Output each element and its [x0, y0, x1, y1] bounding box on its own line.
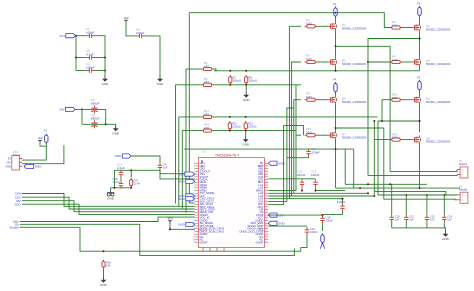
wire r1 to q1: [318, 25, 329, 27]
svg-text:22: 22: [193, 219, 195, 221]
net label SDO: [14, 202, 21, 206]
fuse F2: [333, 2, 337, 18]
wire bus b1e: [181, 131, 183, 210]
wire sense A bottom: [214, 84, 296, 86]
component D1 (capsule): [320, 233, 324, 249]
capacitor C11 1uF: [404, 214, 414, 222]
svg-text:GND: GND: [112, 132, 120, 136]
wire r10 to q6: [403, 99, 413, 101]
wire q3 source: [335, 66, 337, 71]
connector U10 Power: [5, 150, 22, 170]
shunt resistor R8 100mOhm: [245, 75, 257, 85]
svg-text:1uF: 1uF: [395, 217, 400, 221]
wire pin row12: [268, 192, 368, 194]
svg-text:100mΩ: 100mΩ: [233, 79, 241, 83]
wire C4 row: [76, 70, 87, 72]
wire sense A high: [214, 70, 216, 72]
resistor R4 10: [390, 55, 403, 64]
svg-text:53: 53: [265, 222, 267, 224]
svg-text:35: 35: [265, 173, 267, 175]
ground GND1: [102, 76, 110, 86]
capacitor C4 100nF: [86, 62, 95, 73]
wire sense B bottom: [214, 130, 296, 132]
wire C14 bot: [443, 222, 445, 228]
wire c18 down: [322, 223, 324, 231]
svg-text:100nF: 100nF: [326, 218, 334, 222]
wire bus b1d: [178, 117, 180, 206]
transistor Q6 50N06: [412, 96, 450, 104]
svg-text:37: 37: [265, 178, 267, 180]
svg-text:470: 470: [204, 80, 209, 84]
capacitor C21 2.2uF: [117, 162, 125, 177]
svg-text:220nF: 220nF: [297, 173, 306, 177]
junction R8 bottom: [245, 84, 247, 86]
transistor Q1 50N06: [328, 22, 366, 30]
junction q7 sense: [335, 148, 337, 150]
fuse F5: [417, 76, 421, 92]
svg-text:12.4k: 12.4k: [134, 182, 141, 186]
wire shunt A gnd: [245, 85, 247, 92]
net flag 12V pin: [268, 213, 283, 217]
svg-text:U2: U2: [202, 150, 206, 154]
svg-text:20: 20: [193, 214, 195, 216]
svg-text:10Ω: 10Ω: [306, 21, 312, 25]
junction phaseA L: [335, 45, 337, 47]
svg-text:+5V: +5V: [37, 136, 42, 140]
svg-text:GND: GND: [278, 161, 286, 165]
svg-text:220nF: 220nF: [312, 150, 321, 154]
svg-text:44: 44: [265, 197, 267, 199]
fuse F4: [333, 78, 337, 94]
svg-text:3: 3: [194, 167, 195, 169]
svg-text:GND: GND: [115, 154, 123, 158]
junction R13 bottom: [245, 130, 247, 132]
wire riser 335: [335, 149, 337, 188]
svg-text:10: 10: [193, 186, 195, 188]
svg-text:100nF: 100nF: [136, 31, 145, 35]
capacitor C10 1uF: [390, 214, 401, 222]
resistor R11 470: [201, 109, 214, 119]
capacitor C18 100nF: [320, 215, 333, 223]
shunt resistor R7 100mOhm: [229, 75, 241, 85]
wire r2 to q2: [403, 27, 413, 29]
junction 24V: [81, 108, 83, 110]
svg-text:49: 49: [265, 211, 267, 213]
svg-text:680uF: 680uF: [91, 101, 100, 105]
svg-text:18: 18: [193, 208, 195, 210]
wire pin row14: [268, 198, 289, 200]
junction bulk gnd: [105, 123, 107, 125]
junction cb2: [315, 190, 317, 192]
resistor R1 10: [305, 18, 318, 28]
svg-text:100nF: 100nF: [337, 200, 346, 204]
svg-text:MotorB: MotorB: [459, 188, 467, 191]
svg-text:10Ω: 10Ω: [306, 95, 312, 99]
wire C4 right: [95, 70, 106, 72]
svg-text:46: 46: [265, 203, 267, 205]
resistor R16 470: [201, 123, 214, 133]
svg-text:GND: GND: [107, 197, 115, 201]
svg-text:100mΩ: 100mΩ: [248, 125, 256, 129]
svg-text:50N06_C2930003: 50N06_C2930003: [342, 62, 367, 66]
junction rail e: [405, 194, 407, 196]
svg-text:42: 42: [265, 192, 267, 194]
svg-text:100nF: 100nF: [86, 31, 95, 35]
capacitor C5 4.7uF: [86, 49, 95, 60]
wire 24V top row: [75, 108, 106, 110]
transistor Q8 50N06: [412, 135, 450, 143]
junction R12 top: [229, 116, 231, 118]
svg-text:GND: GND: [178, 180, 186, 184]
wire c16 bot: [301, 235, 307, 248]
wire rail 188: [336, 187, 460, 189]
wire phaseA to motor R: [368, 39, 420, 176]
capacitor C14 1uF: [442, 214, 453, 222]
net flag GND pin b: [178, 194, 194, 198]
svg-text:5V: 5V: [8, 157, 11, 161]
svg-text:GND: GND: [278, 222, 286, 226]
wire gate Q7 bus: [296, 85, 301, 191]
wire rail 191: [374, 192, 446, 195]
svg-text:60: 60: [265, 241, 267, 243]
junction rail f2: [335, 12, 337, 14]
wire to GND1: [104, 58, 106, 77]
junction phaseA R: [418, 37, 420, 39]
ground GND5: [243, 92, 251, 102]
wire CSN: [22, 194, 195, 207]
junction rail b: [389, 183, 391, 185]
wire q7 source: [335, 139, 337, 149]
wire bus b1a: [189, 13, 194, 203]
svg-text:+5V: +5V: [123, 16, 128, 20]
svg-text:51: 51: [265, 217, 267, 219]
svg-text:7: 7: [194, 178, 195, 180]
junction rail d: [419, 187, 421, 189]
IC U2 TMC5160A-TA-T: [193, 150, 268, 252]
svg-text:GND: GND: [157, 82, 165, 86]
svg-text:50N06_C2930003: 50N06_C2930003: [342, 26, 367, 30]
wire p2 pin1: [378, 194, 457, 196]
net label CSN: [15, 192, 21, 196]
wire p1 pin2: [368, 174, 457, 177]
transistor Q3 50N06: [328, 58, 366, 66]
wire R11 feed: [179, 116, 201, 118]
power flag 3V3 small: [167, 217, 173, 224]
wire Dir: [20, 224, 294, 255]
capacitor C12 1uF: [425, 214, 436, 222]
svg-text:27: 27: [193, 233, 195, 235]
resistor R6 470: [201, 77, 214, 87]
connector P2 MotorB: [457, 184, 468, 203]
wire C8 to GND2: [145, 36, 161, 76]
svg-text:50N06_C2930003: 50N06_C2930003: [426, 100, 451, 104]
net flag 3V3 pin: [178, 172, 194, 176]
ground GND7: [442, 231, 450, 241]
wire R6 feed: [176, 84, 202, 86]
power flag +5V (fuse input): [37, 136, 42, 145]
net flag GND pin a: [178, 179, 194, 183]
svg-text:50: 50: [265, 214, 267, 216]
wire 12v row: [268, 214, 322, 216]
power flag +5V: [123, 16, 128, 23]
wire C14 top: [443, 195, 445, 214]
wire c18b top: [184, 148, 308, 150]
wire 3V3 rail top: [76, 35, 87, 37]
wire y149 ext: [309, 148, 354, 150]
svg-text:VCC: VCC: [259, 230, 264, 232]
wire R16 feed: [182, 130, 201, 132]
svg-text:50N06_C2930003: 50N06_C2930003: [426, 140, 451, 144]
junction r14 feed: [373, 120, 375, 122]
svg-text:28: 28: [193, 236, 195, 238]
wire c20 bot: [323, 211, 343, 214]
wire C5 right: [95, 57, 106, 59]
svg-text:30: 30: [193, 241, 195, 243]
svg-text:GNDP: GNDP: [256, 240, 264, 244]
wire c20 top: [342, 199, 344, 204]
wire r4 to q4: [403, 61, 413, 63]
wire C10 top: [391, 195, 393, 214]
capacitor C6 680uF (electrolytic): [91, 98, 100, 113]
svg-text:32: 32: [265, 165, 267, 167]
wire q1 top: [335, 16, 337, 22]
wire cb row top: [268, 178, 315, 180]
ground GND2: [157, 76, 165, 86]
svg-text:54: 54: [265, 225, 267, 227]
wire phaseB to motor L: [336, 128, 384, 199]
wire cb2 low: [316, 187, 346, 190]
svg-text:50N06_C2930003: 50N06_C2930003: [426, 62, 451, 66]
svg-text:4.7uF: 4.7uF: [86, 52, 94, 56]
resistor R17 12.4k: [130, 178, 141, 187]
svg-text:47: 47: [265, 206, 267, 208]
wire r10 feed: [382, 99, 390, 101]
wire filt top: [115, 169, 132, 171]
wire sense B top: [214, 116, 378, 118]
svg-text:59: 59: [265, 238, 267, 240]
svg-text:40: 40: [265, 186, 267, 188]
svg-text:470: 470: [204, 112, 209, 116]
wire C5 row: [76, 57, 87, 59]
wire Enable: [20, 227, 301, 251]
resistor R2 10: [390, 20, 403, 29]
junction r4 feed: [367, 61, 369, 63]
resistor R15 10: [305, 127, 318, 137]
svg-text:19: 19: [193, 211, 195, 213]
wire 24V right leg: [105, 109, 107, 124]
svg-text:GND: GND: [178, 197, 186, 201]
net flag GND clk: [115, 154, 131, 158]
net flag GND pin e: [268, 161, 285, 165]
net label Dir: [15, 223, 19, 227]
wire 3v3 small: [170, 224, 195, 230]
shunt resistor R13 100mOhm: [244, 121, 256, 131]
wire r4 feed: [368, 61, 390, 63]
wire 24V left leg: [81, 109, 83, 124]
capacitor C20 100nF: [337, 197, 346, 212]
shunt resistor R12 100mOhm: [228, 121, 240, 131]
svg-text:45: 45: [265, 200, 267, 202]
connector P1 MotorA: [457, 159, 468, 178]
wire C1 right: [95, 36, 106, 58]
svg-text:17: 17: [193, 206, 195, 208]
wire c21 stub: [120, 169, 122, 172]
wire C12 top: [426, 195, 428, 214]
wire left branch: [75, 36, 77, 71]
wire +5V down: [126, 23, 137, 36]
wire SDI: [22, 201, 195, 212]
junction phaseB L: [335, 127, 337, 129]
junction c18 top: [322, 214, 324, 216]
svg-text:Enable: Enable: [10, 226, 20, 230]
wire to GND3: [106, 124, 116, 125]
wire riser 353: [353, 149, 355, 188]
wire sense A top: [214, 69, 420, 71]
capacitor C18b 100nF: [306, 147, 320, 157]
capacitor C8 100nF: [136, 27, 145, 38]
svg-text:100nF: 100nF: [311, 173, 320, 177]
svg-text:1: 1: [194, 162, 195, 164]
junction R8 top: [245, 70, 247, 72]
wire c21 low: [120, 178, 122, 181]
svg-text:GND: GND: [243, 98, 251, 102]
svg-text:10Ω: 10Ω: [392, 136, 398, 140]
wire pin row16: [268, 204, 283, 206]
net label SCK: [15, 195, 21, 199]
wire filt to IC: [131, 170, 194, 173]
svg-text:SDO: SDO: [14, 202, 21, 206]
wire U10 pin2 24V: [22, 145, 64, 164]
ground GND6: [242, 137, 250, 147]
wire riser 345: [344, 149, 346, 184]
wire r9 to q5: [318, 99, 329, 101]
capacitor C9 680uF (electrolytic): [91, 113, 100, 128]
junction 3v3 small: [169, 228, 171, 230]
analog ground AGND: [107, 191, 115, 201]
transistor Q7 50N06: [328, 131, 366, 139]
wire rail 184: [345, 183, 427, 185]
svg-text:100mΩ: 100mΩ: [249, 79, 257, 83]
transistor Q5 50N06: [328, 96, 366, 104]
wire pin row13: [268, 195, 374, 197]
svg-text:3V3: 3V3: [178, 172, 184, 176]
capacitor C15 470nF: [113, 177, 124, 189]
svg-text:1uF: 1uF: [430, 217, 435, 221]
svg-text:9: 9: [194, 184, 195, 186]
svg-text:680uF: 680uF: [91, 116, 100, 120]
svg-text:Power: Power: [13, 153, 20, 157]
resistor R8g 10: [305, 91, 318, 101]
svg-text:GNDP: GNDP: [200, 240, 208, 244]
svg-text:4: 4: [194, 170, 195, 172]
power flag 3V3: [59, 34, 75, 38]
svg-text:GND: GND: [5, 164, 11, 168]
ground GND3: [112, 126, 120, 136]
svg-text:VCC_IO: VCC_IO: [199, 230, 208, 232]
capacitor C1 100nF: [86, 27, 95, 38]
wire p2 pin2: [384, 198, 457, 201]
wire lb path: [284, 126, 304, 205]
resistor R3 10: [305, 54, 318, 64]
wire q6 top: [419, 90, 421, 96]
capacitor C16 100nF: [305, 227, 318, 235]
svg-text:33: 33: [265, 167, 267, 169]
svg-text:52: 52: [265, 219, 267, 221]
fuse F1: [44, 129, 48, 144]
svg-text:3V3: 3V3: [167, 217, 173, 221]
wire bus b1c: [175, 85, 177, 204]
junction filt tr: [130, 169, 132, 171]
junction row12: [367, 192, 369, 194]
wire cb1 low: [301, 187, 303, 190]
wire c9b to pin: [160, 170, 195, 179]
junction R7 top: [229, 70, 231, 72]
svg-text:50N06_C2930003: 50N06_C2930003: [342, 100, 367, 104]
svg-text:50N06_C2930003: 50N06_C2930003: [342, 135, 367, 139]
svg-text:GND: GND: [102, 82, 110, 86]
junction c20: [342, 198, 344, 200]
svg-text:470nF: 470nF: [113, 180, 121, 184]
svg-text:38: 38: [265, 181, 267, 183]
wire bus b1b: [185, 69, 187, 213]
svg-text:43: 43: [265, 195, 267, 197]
junction r10 feed: [381, 120, 383, 122]
svg-text:6: 6: [194, 176, 195, 178]
wire aux bus: [287, 108, 294, 201]
wire gate Q1 bus: [289, 26, 301, 198]
svg-text:10Ω: 10Ω: [392, 96, 398, 100]
svg-text:50N06_C2930003: 50N06_C2930003: [426, 28, 451, 32]
wire phaseA left node: [335, 31, 337, 58]
junction rail c: [359, 187, 361, 189]
wire r14 feed: [374, 139, 389, 141]
svg-text:10Ω: 10Ω: [392, 58, 398, 62]
svg-text:2.2uF: 2.2uF: [117, 166, 125, 170]
svg-text:26: 26: [193, 230, 195, 232]
wire r14 vert: [373, 121, 375, 196]
svg-text:10Ω: 10Ω: [306, 57, 312, 61]
wire phaseB right node: [419, 104, 421, 132]
net flag GND pin c: [178, 197, 194, 201]
svg-text:GND: GND: [242, 143, 250, 147]
svg-text:GND: GND: [178, 223, 186, 227]
wire phaseB left node: [335, 104, 337, 131]
junction Enable pulldown: [103, 250, 105, 252]
svg-text:24V: 24V: [59, 108, 64, 112]
capacitor C13 100nF: [311, 169, 320, 187]
junction filt bl: [114, 187, 116, 189]
svg-text:34: 34: [265, 170, 267, 172]
wire pin row15: [268, 200, 287, 202]
svg-text:36: 36: [265, 176, 267, 178]
wire phaseB to motor R: [378, 121, 420, 195]
svg-text:10k: 10k: [106, 264, 111, 268]
wire q2 top: [419, 16, 421, 24]
label C9b: [163, 162, 168, 169]
net flag GND pin d: [178, 222, 194, 226]
svg-text:39: 39: [265, 184, 267, 186]
wire q4 source: [419, 66, 421, 71]
svg-text:1uF: 1uF: [163, 165, 168, 169]
junction R13 top: [245, 116, 247, 118]
wire Step: [20, 217, 195, 221]
wire C11 top: [405, 195, 407, 214]
fuse F3: [417, 2, 421, 18]
wire agnd stub: [110, 188, 112, 191]
svg-text:100nF: 100nF: [86, 65, 95, 69]
svg-text:31: 31: [265, 162, 267, 164]
svg-text:100mΩ: 100mΩ: [232, 125, 240, 129]
